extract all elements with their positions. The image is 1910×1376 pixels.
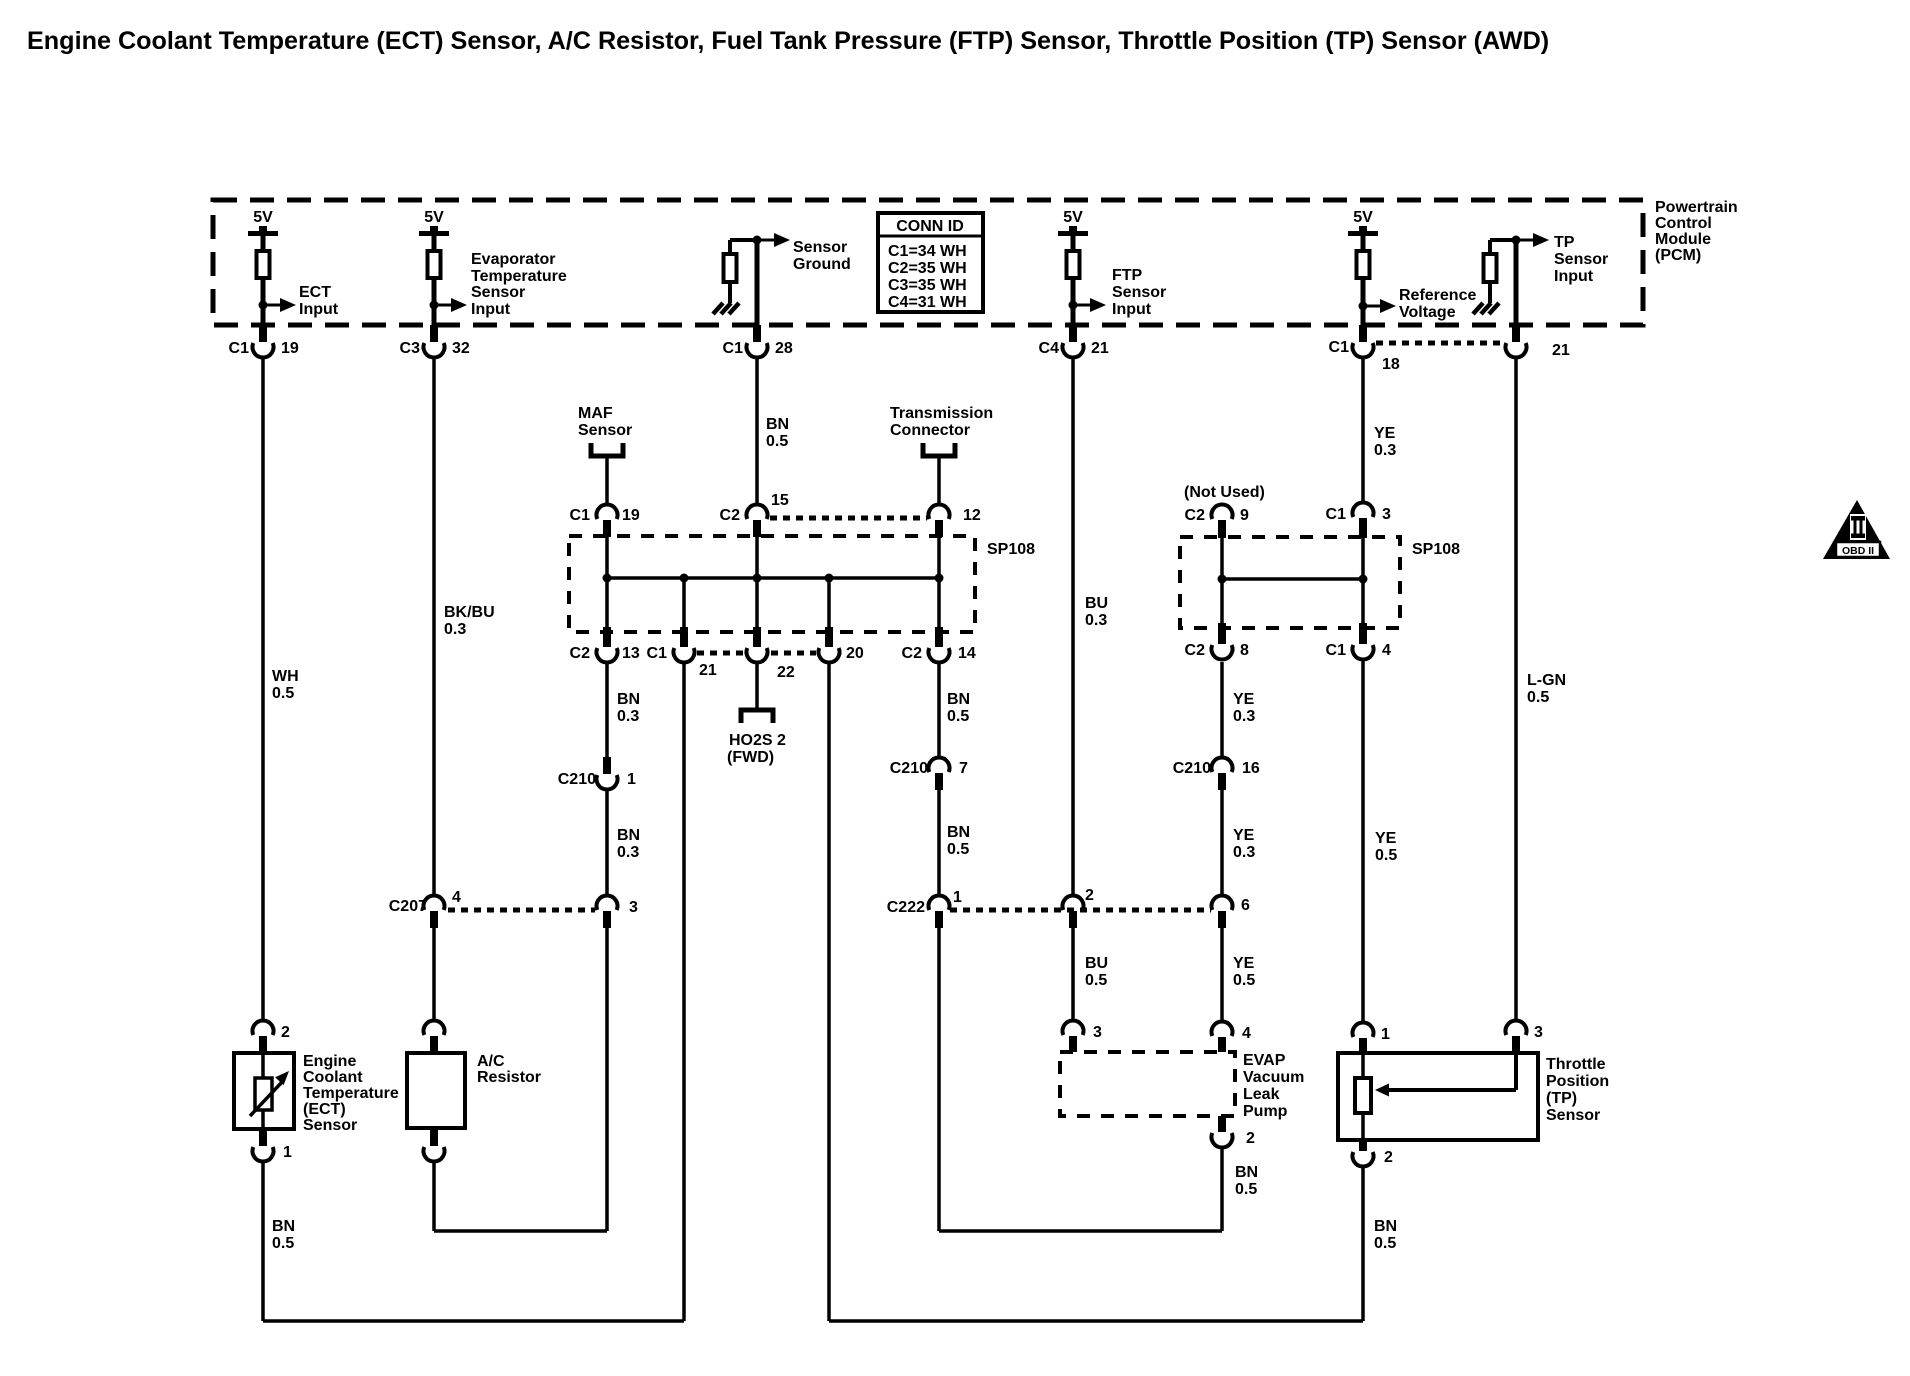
connector C1 pin 19 (MAF) [597,504,618,519]
wire splice branch x684 [682,578,686,632]
svg-text:C2: C2 [570,645,591,662]
svg-text:BN: BN [1235,1164,1258,1181]
svg-text:C210: C210 [890,760,928,777]
svg-text:Input: Input [1554,268,1594,285]
svg-text:Temperature: Temperature [471,268,567,285]
svg-text:0.3: 0.3 [1233,844,1255,861]
svg-text:FTP: FTP [1112,267,1143,284]
svg-text:Pump: Pump [1243,1103,1288,1120]
svg-text:C2: C2 [1185,507,1206,524]
wire sensor ground down [755,240,760,325]
svg-text:6: 6 [1241,897,1250,914]
svg-text:3: 3 [1093,1024,1102,1041]
svg-text:0.3: 0.3 [1374,442,1396,459]
node Evap Input junction [430,301,439,310]
connector EVAP pump pin 4 [1212,1021,1233,1036]
svg-text:C1: C1 [1326,506,1347,523]
ground (PCM internal) [728,282,732,303]
wire pin22 to HO2S [755,662,759,710]
connector C210 pin 1 [603,757,611,774]
EVAP Vacuum Leak Pump dashed box [1060,1052,1235,1116]
svg-text:0.3: 0.3 [1085,612,1107,629]
wire pin3 down to A/C return [605,928,609,1231]
svg-text:3: 3 [1382,506,1391,523]
connector C1 pin 4 [1359,623,1367,644]
svg-text:0.5: 0.5 [1375,847,1397,864]
wire BN 0.5 C2-14 down [937,662,941,758]
svg-text:HO2S 2: HO2S 2 [729,732,786,749]
connector pin 20 [825,627,833,647]
pull-up resistor Evap [432,236,437,251]
svg-text:(ECT): (ECT) [303,1101,346,1118]
svg-text:4: 4 [452,889,461,906]
svg-text:0.5: 0.5 [766,433,788,450]
connector C1 pin 18 (PCM) [1359,325,1367,342]
wire BN 0.5 TP return [1361,1166,1365,1321]
wire BN 0.5 sensor ground [755,357,759,504]
PCM dashed box (Powertrain Control Module) [213,200,1643,325]
wire pin20 to TP return [827,662,831,1321]
HO2S 2 (FWD) pigtail [741,710,773,723]
node Reference Voltage junction [1359,302,1368,311]
connector C3 pin 32 (PCM) [430,325,438,342]
splice bus SP108-2 [1222,577,1363,581]
wire Transmission to pin 12 [937,456,941,504]
connector pin 12 (Transmission) [929,504,950,519]
connector C210 pin 16 [1212,757,1233,772]
svg-text:5V: 5V [424,209,444,226]
svg-text:Sensor: Sensor [793,239,847,256]
connector pin 21 (PCM TP input) [1512,325,1520,342]
svg-text:Sensor: Sensor [471,284,525,301]
svg-text:Coolant: Coolant [303,1069,363,1086]
connector A/C resistor top [424,1020,445,1035]
wire YE 0.5 C222-6 down [1220,928,1224,1022]
svg-text:C3=35 WH: C3=35 WH [888,277,967,294]
svg-text:BK/BU: BK/BU [444,604,495,621]
sensor ground resistor [724,254,737,282]
svg-text:A/C: A/C [477,1053,505,1070]
svg-text:Input: Input [471,301,511,318]
svg-text:WH: WH [272,668,299,685]
svg-text:0.5: 0.5 [1235,1181,1257,1198]
splice SP108 box 2 [1180,537,1400,628]
svg-text:Sensor: Sensor [1546,1107,1600,1124]
connector C1 pin 21 [680,627,688,647]
svg-text:Leak: Leak [1243,1086,1280,1103]
svg-text:SP108: SP108 [987,541,1035,558]
wire through ECT sensor [261,1053,265,1129]
svg-text:YE: YE [1233,691,1255,708]
svg-text:C3: C3 [400,340,421,357]
svg-text:(FWD): (FWD) [727,749,774,766]
wire resistor to TP input node [1488,240,1492,252]
wire through splice x607 [605,537,609,632]
pull-up resistor FTP [1071,236,1076,251]
svg-text:0.5: 0.5 [1085,972,1107,989]
connector C2 pin 13 [603,627,611,647]
svg-text:Position: Position [1546,1073,1609,1090]
svg-text:2: 2 [1384,1149,1393,1166]
svg-text:8: 8 [1240,642,1249,659]
svg-text:BN: BN [947,824,970,841]
svg-text:C4: C4 [1039,340,1060,357]
wire YE 0.5 C1-4 down to TP pin 1 [1361,659,1365,1023]
svg-text:2: 2 [1085,887,1094,904]
svg-text:Voltage: Voltage [1399,304,1456,321]
wire WH 0.5 ECT signal [261,357,265,1021]
connector C222 pin 2 [1063,895,1084,910]
svg-text:BN: BN [617,691,640,708]
svg-text:Connector: Connector [890,422,970,439]
svg-text:TP: TP [1554,234,1575,251]
svg-text:0.5: 0.5 [1233,972,1255,989]
svg-text:Evaporator: Evaporator [471,251,555,268]
svg-text:C1: C1 [570,507,591,524]
junction dots SP108-2 [1218,575,1227,584]
svg-text:C1: C1 [229,340,250,357]
arrow ECT Input [263,304,284,307]
svg-text:12: 12 [963,507,981,524]
svg-text:Module: Module [1655,231,1711,248]
connector ECT pin 2 [253,1020,274,1035]
wire A/C return [432,1161,436,1231]
connector interface dotted line 21-22-20 [697,651,743,656]
wire BN 0.5 below C210-7 [937,790,941,896]
wire BK/BU 0.3 evap temp [432,357,436,896]
svg-text:21: 21 [1091,340,1109,357]
connector interface dotted line C1 18-21 [1376,341,1504,346]
svg-text:0.5: 0.5 [947,708,969,725]
svg-text:Engine: Engine [303,1053,356,1070]
connector A/C resistor bottom [430,1128,438,1146]
svg-text:BU: BU [1085,595,1108,612]
connector C210 pin 7 [929,757,950,772]
svg-text:1: 1 [1381,1026,1390,1043]
svg-text:BN: BN [272,1218,295,1235]
CONN ID table [878,213,983,312]
junction dots SP108-1 [603,574,612,583]
node ECT Input junction [259,301,268,310]
svg-text:(PCM): (PCM) [1655,247,1701,264]
svg-text:15: 15 [771,492,789,509]
node FTP Input junction [1069,301,1078,310]
node TP Sensor Input junction [1512,236,1521,245]
svg-text:YE: YE [1375,830,1397,847]
svg-text:Control: Control [1655,215,1712,232]
connector interface dotted line C222 1-2-6 [950,908,1211,913]
connector C2 pin 8 [1218,623,1226,644]
svg-text:BN: BN [1374,1218,1397,1235]
svg-text:0.5: 0.5 [947,841,969,858]
svg-text:Throttle: Throttle [1546,1056,1606,1073]
svg-text:1: 1 [953,889,962,906]
svg-text:Input: Input [1112,301,1152,318]
connector C4 pin 21 (PCM) [1069,325,1077,342]
svg-text:ECT: ECT [299,284,331,301]
arrow FTP Sensor Input [1073,304,1094,307]
connector TP sensor pin 1 [1353,1022,1374,1037]
wire EVAP return C222-1 down [937,928,941,1231]
svg-text:Engine Coolant Temperature (EC: Engine Coolant Temperature (ECT) Sensor,… [27,27,1549,55]
svg-text:7: 7 [959,760,968,777]
svg-text:Sensor: Sensor [303,1117,357,1134]
svg-text:21: 21 [699,662,717,679]
svg-text:C2: C2 [1185,642,1206,659]
svg-text:1: 1 [283,1144,292,1161]
svg-text:YE: YE [1374,425,1396,442]
connector C2 pin 14 [935,627,943,647]
thermistor element ECT [255,1078,272,1110]
wire BN 0.3 below C210-1 [605,789,609,896]
connector C207 pin 3 [597,895,618,910]
svg-text:Sensor: Sensor [1554,251,1608,268]
svg-text:0.5: 0.5 [272,685,294,702]
wire through splice x1222 [1220,538,1224,628]
svg-text:21: 21 [1552,342,1570,359]
svg-text:2: 2 [1246,1130,1255,1147]
svg-text:5V: 5V [253,209,273,226]
svg-text:(TP): (TP) [1546,1090,1577,1107]
connector interface dotted line 15-12 [770,516,927,521]
connector C2 pin 9 (not used) [1212,504,1233,519]
svg-text:C210: C210 [558,771,596,788]
wire A/C return bottom run [434,1229,607,1233]
svg-text:19: 19 [281,340,299,357]
arrow Reference Voltage [1363,305,1384,308]
svg-text:20: 20 [846,645,864,662]
svg-text:5V: 5V [1353,209,1373,226]
ECT sensor box [234,1053,294,1129]
svg-text:EVAP: EVAP [1243,1052,1286,1069]
Throttle Position sensor box [1338,1053,1538,1140]
wire BN 0.5 ECT return [261,1161,265,1321]
wire MAF to C1-19 [605,456,609,504]
svg-text:Resistor: Resistor [477,1069,541,1086]
A/C Resistor box [407,1053,465,1128]
TP potentiometer element [1361,1053,1365,1078]
connector ECT pin 1 [259,1129,267,1146]
svg-text:3: 3 [629,899,638,916]
svg-text:C210: C210 [1173,760,1211,777]
arrow Sensor Ground [757,239,778,242]
wire L-GN 0.5 TP signal [1514,357,1518,1021]
svg-text:18: 18 [1382,356,1400,373]
svg-text:0.3: 0.3 [1233,708,1255,725]
svg-text:C1=34 WH: C1=34 WH [888,243,967,260]
svg-text:1: 1 [627,771,636,788]
svg-text:32: 32 [452,340,470,357]
svg-text:0.5: 0.5 [1374,1235,1396,1252]
svg-text:CONN ID: CONN ID [896,218,964,235]
svg-text:Temperature: Temperature [303,1085,399,1102]
wire YE 0.3 C2-8 down [1220,662,1224,758]
svg-text:14: 14 [958,645,976,662]
node Sensor Ground junction [753,236,762,245]
svg-text:9: 9 [1240,507,1249,524]
svg-text:C2: C2 [902,645,923,662]
svg-text:19: 19 [622,507,640,524]
ground (PCM internal, TP) [1488,282,1492,303]
connector interface dotted line C207 4-3 [448,908,595,913]
svg-text:Sensor: Sensor [1112,284,1166,301]
wire BU 0.3 FTP signal [1071,357,1075,896]
wire BN 0.3 MAF low [605,662,609,757]
svg-text:Sensor: Sensor [578,422,632,439]
connector EVAP pump pin 3 [1063,1020,1084,1035]
svg-text:C1: C1 [1326,642,1347,659]
svg-text:3: 3 [1534,1024,1543,1041]
svg-text:C207: C207 [389,898,427,915]
svg-text:Transmission: Transmission [890,405,993,422]
wire YE 0.3 below C210-16 [1220,790,1224,896]
connector pin 22 [753,627,761,647]
svg-text:0.3: 0.3 [617,844,639,861]
svg-text:C1: C1 [723,340,744,357]
svg-text:0.5: 0.5 [272,1235,294,1252]
wire resistor to sensor-ground node [728,240,732,252]
wire YE 0.3 reference voltage [1361,357,1365,503]
svg-text:22: 22 [777,664,795,681]
OBD II marker [1823,500,1890,559]
svg-text:Reference: Reference [1399,287,1476,304]
svg-text:C1: C1 [647,645,668,662]
connector TP sensor pin 2 [1359,1140,1367,1151]
svg-text:28: 28 [775,340,793,357]
svg-text:BU: BU [1085,955,1108,972]
svg-text:(Not Used): (Not Used) [1184,484,1265,501]
connector C1 pin 3 [1353,502,1374,517]
pull-up resistor ECT [261,236,266,251]
svg-text:BN: BN [947,691,970,708]
svg-text:C222: C222 [887,899,925,916]
TP sensor input resistor [1484,254,1497,282]
wire splice branch x829 [827,578,831,632]
svg-text:Vacuum: Vacuum [1243,1069,1304,1086]
pull-up resistor Reference Voltage [1361,236,1366,251]
TP wiper arm pin 3 [1514,1053,1518,1090]
splice SP108 box 1 [569,536,975,632]
splice bus SP108-1 [607,576,939,580]
connector C222 pin 1 [929,895,950,910]
connector C1 pin 19 (PCM) [259,325,267,342]
arrow TP Sensor Input [1516,239,1537,242]
wire through splice x939 [937,537,941,632]
connector C1 pin 28 (PCM) [753,325,761,342]
svg-text:4: 4 [1382,642,1391,659]
connector C2 pin 15 [747,504,768,519]
svg-text:YE: YE [1233,955,1255,972]
svg-text:Ground: Ground [793,256,851,273]
svg-text:0.5: 0.5 [1527,689,1549,706]
connector TP sensor pin 3 [1505,1020,1526,1035]
arrow Evaporator Temperature Sensor Input [434,304,455,307]
connector C207 pin 4 [424,895,445,910]
wire EVAP return bottom run [939,1229,1222,1233]
svg-text:Input: Input [299,301,339,318]
svg-text:2: 2 [281,1024,290,1041]
wire through splice x757 [755,537,759,632]
svg-text:OBD II: OBD II [1842,545,1874,557]
svg-text:16: 16 [1242,760,1260,777]
svg-text:L-GN: L-GN [1527,672,1566,689]
svg-text:YE: YE [1233,827,1255,844]
svg-text:MAF: MAF [578,405,613,422]
svg-text:5V: 5V [1063,209,1083,226]
svg-text:BN: BN [766,416,789,433]
svg-text:Powertrain: Powertrain [1655,199,1738,216]
svg-text:0.3: 0.3 [617,708,639,725]
wire C1-21 to ECT return [682,662,686,1321]
svg-text:C4=31 WH: C4=31 WH [888,294,967,311]
svg-text:C1: C1 [1329,339,1350,356]
svg-text:4: 4 [1242,1025,1251,1042]
wire BU 0.5 C222-2 down [1071,928,1075,1021]
svg-text:13: 13 [622,645,640,662]
svg-text:C2: C2 [720,507,741,524]
svg-text:C2=35 WH: C2=35 WH [888,260,967,277]
svg-text:0.3: 0.3 [444,621,466,638]
svg-text:BN: BN [617,827,640,844]
wire BN 0.5 EVAP return [1220,1147,1224,1231]
connector C222 pin 6 [1212,895,1233,910]
wire ECT return bottom run [263,1319,684,1323]
wire through splice x1363 [1361,538,1365,628]
connector EVAP pump pin 2 [1218,1116,1226,1132]
wire TP return bottom run [829,1319,1363,1323]
wire TP input down [1514,240,1519,325]
wire C207-4 to A/C resistor [432,928,436,1021]
svg-text:SP108: SP108 [1412,541,1460,558]
